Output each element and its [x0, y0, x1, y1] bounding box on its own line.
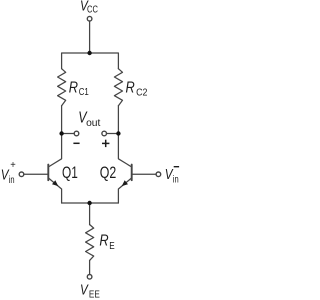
svg-text:EE: EE [89, 287, 100, 299]
svg-text:R: R [99, 232, 108, 250]
svg-text:R: R [126, 79, 135, 97]
label plus (vout) [102, 140, 109, 147]
label VEE [80, 281, 100, 299]
wire RC2 to node [117, 106, 119, 134]
label RC1 [69, 79, 89, 97]
vout- terminal [74, 131, 79, 136]
svg-text:V: V [80, 281, 89, 298]
label Vin- [165, 165, 179, 184]
resistor RE [86, 225, 94, 261]
svg-text:out: out [86, 118, 100, 129]
wire VCC to top rail [89, 21, 91, 53]
label RE [99, 232, 114, 251]
label minus (vout) [73, 142, 79, 144]
vout+ terminal [102, 131, 107, 136]
svg-text:C2: C2 [136, 87, 147, 99]
wire Q2 base [133, 173, 157, 175]
junction vout right [116, 131, 120, 135]
transistor Q2 [131, 165, 133, 181]
VCC terminal [87, 16, 92, 21]
wire Q1 collector [49, 134, 62, 167]
svg-text:C1: C1 [79, 86, 89, 97]
label Vout [78, 109, 100, 129]
wire RC1 to node [61, 106, 63, 134]
svg-text:R: R [69, 79, 78, 97]
wire RE to VEE [89, 260, 91, 274]
wire Q1 base [24, 173, 48, 175]
wire Q2 emitter [118, 178, 131, 203]
svg-text:in: in [173, 173, 179, 184]
transistor Q1 [47, 165, 49, 181]
wire tail to RE [89, 203, 91, 225]
junction emitter bus [87, 201, 91, 205]
Q2 emitter arrow [122, 180, 128, 186]
wire vout- stub [62, 133, 75, 135]
resistor RC2 [114, 69, 122, 106]
svg-text:Q1: Q1 [62, 164, 78, 182]
Vin+ terminal [19, 172, 24, 177]
wire top rail [62, 53, 119, 69]
label Vin+ [1, 160, 16, 186]
svg-text:E: E [109, 239, 114, 251]
wire Q2 collector [118, 134, 131, 167]
svg-text:CC: CC [87, 3, 98, 14]
svg-text:+: + [10, 160, 16, 172]
junction top [87, 51, 91, 55]
svg-text:Q2: Q2 [100, 164, 117, 182]
wire emitter bus [62, 202, 119, 204]
label VCC [80, 0, 98, 15]
junction vout left [59, 131, 63, 135]
resistor RC1 [58, 69, 66, 106]
Vin- terminal [156, 172, 161, 177]
VEE terminal [87, 275, 92, 280]
wire vout+ stub [107, 133, 119, 135]
wire Q1 emitter [49, 178, 62, 203]
label RC2 [126, 79, 148, 98]
svg-text:in: in [9, 174, 15, 185]
Q1 emitter arrow [52, 180, 58, 186]
